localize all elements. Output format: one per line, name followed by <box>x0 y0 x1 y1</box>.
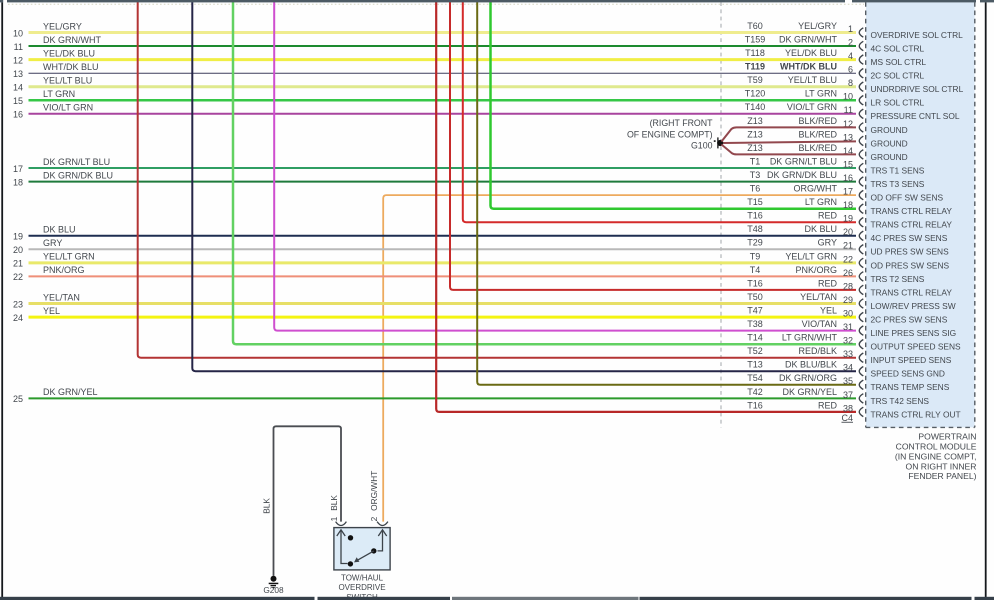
connector pin 19 terminal arc <box>859 218 863 227</box>
svg-text:YEL/LT GRN: YEL/LT GRN <box>43 252 95 262</box>
svg-text:(RIGHT FRONT: (RIGHT FRONT <box>650 118 714 128</box>
svg-text:32: 32 <box>843 336 853 346</box>
wire T120 LT GRN row 15 (pin 10) <box>29 99 857 102</box>
svg-text:22: 22 <box>843 254 853 264</box>
ground G100 tick <box>717 137 719 148</box>
svg-text:T60: T60 <box>747 21 763 31</box>
svg-text:6: 6 <box>848 65 853 75</box>
svg-text:28: 28 <box>843 281 853 291</box>
connector pin 38 terminal arc <box>859 407 863 416</box>
svg-text:17: 17 <box>843 187 853 197</box>
connector pin 13 terminal arc <box>859 136 863 145</box>
svg-text:FENDER PANEL): FENDER PANEL) <box>908 471 976 481</box>
svg-text:TRANS CTRL RELAY: TRANS CTRL RELAY <box>871 220 953 230</box>
svg-text:T4: T4 <box>750 265 761 275</box>
svg-text:LOW/REV PRESS SW: LOW/REV PRESS SW <box>871 301 956 311</box>
connector pin 18 terminal arc <box>859 204 863 213</box>
svg-text:PNK/ORG: PNK/ORG <box>795 265 837 275</box>
connector pin 28 terminal arc <box>859 285 863 294</box>
connector pin 35 terminal arc <box>859 380 863 389</box>
connector pin 30 terminal arc <box>859 312 863 321</box>
svg-text:VIO/LT GRN: VIO/LT GRN <box>787 102 837 112</box>
svg-text:21: 21 <box>13 259 23 269</box>
connector pin 15 terminal arc <box>859 163 863 172</box>
svg-text:OD OFF SW SENS: OD OFF SW SENS <box>871 193 944 203</box>
wire T16 RED vertical from top (pin 28) <box>450 0 856 290</box>
connector pin 14 terminal arc <box>859 150 863 159</box>
svg-text:TRS T42 SENS: TRS T42 SENS <box>871 396 930 406</box>
wire T59 YEL/LT BLU row 14 (pin 8) <box>29 85 857 88</box>
svg-text:T52: T52 <box>747 346 763 356</box>
svg-text:T16: T16 <box>747 211 763 221</box>
svg-text:PNK/ORG: PNK/ORG <box>43 265 85 275</box>
ground G208 symbol <box>271 576 277 582</box>
switch contact dot lower <box>348 561 353 566</box>
svg-text:17: 17 <box>13 164 23 174</box>
svg-text:15: 15 <box>13 96 23 106</box>
svg-text:RED: RED <box>818 211 838 221</box>
svg-text:T59: T59 <box>747 75 763 85</box>
connector pin 12 terminal arc <box>859 123 863 132</box>
svg-text:VIO/LT GRN: VIO/LT GRN <box>43 103 93 113</box>
svg-text:20: 20 <box>13 245 23 255</box>
wire T3 DK GRN/DK BLU row 18 (pin 16) <box>29 181 857 183</box>
connector pin 32 terminal arc <box>859 340 863 349</box>
svg-text:INPUT SPEED SENS: INPUT SPEED SENS <box>871 355 952 365</box>
switch pin 1 internal lead with arrow <box>341 530 348 564</box>
svg-text:YEL/GRY: YEL/GRY <box>43 21 82 31</box>
svg-text:LT GRN: LT GRN <box>805 197 837 207</box>
connector pin 6 terminal arc <box>859 69 863 78</box>
svg-text:ON RIGHT INNER: ON RIGHT INNER <box>906 461 977 471</box>
connector pin 21 terminal arc <box>859 245 863 254</box>
module PCM dashed border bottom <box>866 426 975 428</box>
svg-text:GRY: GRY <box>43 238 62 248</box>
svg-text:12: 12 <box>13 55 23 65</box>
connector pin 26 terminal arc <box>859 272 863 281</box>
svg-text:T1: T1 <box>750 156 761 166</box>
svg-text:TRANS TEMP SENS: TRANS TEMP SENS <box>871 382 950 392</box>
switch pin 2 terminal arc <box>377 522 388 526</box>
svg-text:TRS T2 SENS: TRS T2 SENS <box>871 274 925 284</box>
wire T16 RED vertical from top (pin 19) <box>463 0 856 222</box>
switch contact dot middle <box>371 548 376 553</box>
wire T16 RED vertical from top (pin 38) <box>436 0 856 412</box>
svg-text:YEL/LT BLU: YEL/LT BLU <box>43 76 92 86</box>
svg-text:31: 31 <box>843 322 853 332</box>
connector pin 16 terminal arc <box>859 177 863 186</box>
wire T52 RED/BLK vertical from top (pin 33) <box>138 0 856 358</box>
connector pin 2 terminal arc <box>859 41 863 50</box>
svg-text:34: 34 <box>843 363 853 373</box>
svg-text:BLK/RED: BLK/RED <box>798 129 837 139</box>
svg-text:DK GRN/ORG: DK GRN/ORG <box>779 373 837 383</box>
bottom bar segments <box>0 597 315 600</box>
svg-text:T15: T15 <box>747 197 763 207</box>
svg-text:WHT/DK BLU: WHT/DK BLU <box>43 62 99 72</box>
svg-text:GROUND: GROUND <box>871 152 908 162</box>
svg-text:19: 19 <box>13 232 23 242</box>
svg-text:GROUND: GROUND <box>871 125 908 135</box>
svg-text:OUTPUT SPEED SENS: OUTPUT SPEED SENS <box>871 342 962 352</box>
connector pin 20 terminal arc <box>859 231 863 240</box>
svg-text:YEL/LT GRN: YEL/LT GRN <box>785 251 837 261</box>
connector pin 29 terminal arc <box>859 299 863 308</box>
wire BLK from switch pin 1 to ground G208 <box>274 426 342 576</box>
svg-text:T118: T118 <box>745 48 765 58</box>
module PCM box fill <box>866 2 975 427</box>
svg-text:4C SOL CTRL: 4C SOL CTRL <box>871 43 925 53</box>
connector pin 4 terminal arc <box>859 55 863 64</box>
svg-text:37: 37 <box>843 390 853 400</box>
svg-text:Z13: Z13 <box>747 129 763 139</box>
svg-text:YEL/TAN: YEL/TAN <box>43 292 80 302</box>
svg-text:24: 24 <box>13 313 23 323</box>
svg-text:RED: RED <box>818 278 838 288</box>
svg-text:BLK/RED: BLK/RED <box>798 143 837 153</box>
svg-text:16: 16 <box>843 173 853 183</box>
svg-text:LT GRN: LT GRN <box>43 89 75 99</box>
svg-text:LINE PRES SENS SIG: LINE PRES SENS SIG <box>871 328 957 338</box>
svg-text:UD PRES SW SENS: UD PRES SW SENS <box>871 247 950 257</box>
svg-text:2C SOL CTRL: 2C SOL CTRL <box>871 71 925 81</box>
top bar segments <box>0 0 3 2</box>
switch lever with arrowhead <box>358 551 374 560</box>
svg-text:14: 14 <box>13 83 23 93</box>
svg-text:Z13: Z13 <box>747 116 763 126</box>
svg-text:11: 11 <box>14 42 23 52</box>
svg-text:DK GRN/YEL: DK GRN/YEL <box>782 387 837 397</box>
wire T14 LT GRN/WHT vertical from top (pin 32) <box>233 0 856 344</box>
svg-text:8: 8 <box>848 78 853 88</box>
wire Z13 BLK/RED to pin 14 <box>722 145 857 155</box>
svg-text:T42: T42 <box>747 387 763 397</box>
svg-text:WHT/DK BLU: WHT/DK BLU <box>780 62 837 72</box>
svg-text:21: 21 <box>843 241 853 251</box>
svg-text:T48: T48 <box>747 224 763 234</box>
wire T6 ORG/WHT from tow/haul switch pin 2 (pin 17) <box>383 195 856 521</box>
svg-text:PRESSURE CNTL SOL: PRESSURE CNTL SOL <box>871 111 960 121</box>
svg-text:YEL/TAN: YEL/TAN <box>800 292 837 302</box>
svg-text:LT GRN/WHT: LT GRN/WHT <box>782 333 838 343</box>
connector pin 33 terminal arc <box>859 353 863 362</box>
svg-text:G100: G100 <box>691 141 713 151</box>
wire T29 GRY row 20 (pin 21) <box>29 248 857 250</box>
svg-text:33: 33 <box>843 349 853 359</box>
svg-text:LR SOL CTRL: LR SOL CTRL <box>871 98 925 108</box>
svg-text:TRS T3 SENS: TRS T3 SENS <box>871 179 925 189</box>
svg-text:T29: T29 <box>747 238 763 248</box>
svg-text:TRS T1 SENS: TRS T1 SENS <box>871 165 925 175</box>
wire T118 YEL/DK BLU row 12 (pin 4) <box>29 58 857 61</box>
svg-text:1: 1 <box>848 24 853 34</box>
svg-text:25: 25 <box>13 394 23 404</box>
wire T15 LT GRN vertical from top (pin 18) <box>491 0 857 209</box>
svg-text:BLK: BLK <box>262 498 272 514</box>
svg-text:2: 2 <box>369 516 379 521</box>
svg-text:DK GRN/DK BLU: DK GRN/DK BLU <box>43 170 113 180</box>
svg-text:DK BLU: DK BLU <box>43 225 76 235</box>
switch S1 tow/haul overdrive switch box <box>334 528 390 570</box>
module PCM dashed border right <box>974 2 976 427</box>
wire Z13 BLK/RED to pin 12 <box>722 127 857 141</box>
wire T1 DK GRN/LT BLU row 17 (pin 15) <box>29 167 857 169</box>
svg-text:CONTROL MODULE: CONTROL MODULE <box>896 442 977 452</box>
svg-text:OF ENGINE COMPT): OF ENGINE COMPT) <box>627 129 713 139</box>
svg-text:T6: T6 <box>750 184 761 194</box>
svg-text:T3: T3 <box>750 170 761 180</box>
svg-text:YEL/DK BLU: YEL/DK BLU <box>785 48 837 58</box>
svg-text:YEL/GRY: YEL/GRY <box>798 21 837 31</box>
switch pin 2 internal lead with arrow <box>378 530 383 551</box>
svg-text:OVERDRIVE: OVERDRIVE <box>338 583 385 592</box>
connector pin 1 terminal arc <box>859 28 863 37</box>
svg-text:YEL: YEL <box>820 306 837 316</box>
svg-text:MS SOL CTRL: MS SOL CTRL <box>871 57 927 67</box>
wire T13 DK BLU/BLK vertical from top (pin 34) <box>192 0 856 371</box>
svg-text:29: 29 <box>843 295 853 305</box>
svg-text:38: 38 <box>843 403 853 413</box>
connector pin 11 terminal arc <box>859 109 863 118</box>
svg-text:11: 11 <box>844 105 853 115</box>
svg-text:4: 4 <box>848 51 853 61</box>
wire T9 YEL/LT GRN row 21 (pin 22) <box>29 261 857 264</box>
connector pin 8 terminal arc <box>859 82 863 91</box>
svg-text:RED/BLK: RED/BLK <box>798 346 837 356</box>
svg-text:C4: C4 <box>841 413 853 423</box>
connector pin 31 terminal arc <box>859 326 863 335</box>
svg-text:30: 30 <box>843 309 853 319</box>
svg-text:4C PRES SW SENS: 4C PRES SW SENS <box>871 233 948 243</box>
svg-text:DK GRN/WHT: DK GRN/WHT <box>43 35 101 45</box>
wire T60 YEL/GRY row 10 (pin 1) <box>29 31 857 34</box>
svg-text:T159: T159 <box>745 34 766 44</box>
svg-text:LT GRN: LT GRN <box>805 89 837 99</box>
svg-text:OVERDRIVE SOL CTRL: OVERDRIVE SOL CTRL <box>871 30 964 40</box>
wire T47 YEL row 24 (pin 30) <box>29 316 857 319</box>
wire T119 WHT/DK BLU row 13 (pin 6) <box>29 72 857 74</box>
svg-text:18: 18 <box>843 200 853 210</box>
svg-text:ORG/WHT: ORG/WHT <box>794 184 838 194</box>
svg-text:DK GRN/WHT: DK GRN/WHT <box>779 34 837 44</box>
svg-text:20: 20 <box>843 227 853 237</box>
svg-text:T14: T14 <box>747 333 763 343</box>
wire T54 DK GRN/ORG vertical from top (pin 35) <box>477 0 856 385</box>
svg-text:POWERTRAIN: POWERTRAIN <box>918 432 976 442</box>
svg-text:TRANS CTRL RELAY: TRANS CTRL RELAY <box>871 287 953 297</box>
switch contact dot upper <box>348 535 353 540</box>
svg-text:T140: T140 <box>745 102 766 112</box>
svg-text:DK GRN/DK BLU: DK GRN/DK BLU <box>767 170 837 180</box>
faint dotted separator <box>8 3 864 5</box>
svg-text:15: 15 <box>843 159 853 169</box>
svg-text:T50: T50 <box>747 292 763 302</box>
svg-text:2: 2 <box>848 37 853 47</box>
svg-text:T13: T13 <box>747 360 763 370</box>
svg-text:BLK/RED: BLK/RED <box>798 116 837 126</box>
ground G100 splice dot <box>717 140 723 146</box>
svg-text:GROUND: GROUND <box>871 138 908 148</box>
svg-text:13: 13 <box>13 69 23 79</box>
connector C4 dashed boundary line <box>720 2 722 427</box>
svg-text:22: 22 <box>13 272 23 282</box>
svg-text:UNDRDRIVE SOL CTRL: UNDRDRIVE SOL CTRL <box>871 84 964 94</box>
svg-text:DK GRN/YEL: DK GRN/YEL <box>43 387 98 397</box>
svg-text:GRY: GRY <box>818 238 837 248</box>
svg-text:16: 16 <box>13 110 23 120</box>
svg-text:T119: T119 <box>745 62 765 72</box>
svg-text:YEL: YEL <box>43 306 60 316</box>
svg-text:YEL/LT BLU: YEL/LT BLU <box>788 75 837 85</box>
svg-text:ORG/WHT: ORG/WHT <box>369 471 379 511</box>
svg-text:DK BLU/BLK: DK BLU/BLK <box>785 360 837 370</box>
connector pin 10 terminal arc <box>859 96 863 105</box>
svg-text:YEL/DK BLU: YEL/DK BLU <box>43 48 95 58</box>
wire T159 DK GRN/WHT row 11 (pin 2) <box>29 45 857 47</box>
svg-text:OD PRES SW SENS: OD PRES SW SENS <box>871 260 950 270</box>
svg-text:2C PRES SW SENS: 2C PRES SW SENS <box>871 315 948 325</box>
connector pin 34 terminal arc <box>859 367 863 376</box>
connector pin 37 terminal arc <box>859 394 863 403</box>
svg-text:T16: T16 <box>747 278 763 288</box>
svg-text:DK GRN/LT BLU: DK GRN/LT BLU <box>43 157 110 167</box>
svg-text:23: 23 <box>13 299 23 309</box>
svg-text:26: 26 <box>843 268 853 278</box>
svg-text:10: 10 <box>13 28 23 38</box>
svg-text:RED: RED <box>818 400 838 410</box>
wire T42 DK GRN/YEL row 25 (pin 37) <box>29 397 857 399</box>
svg-text:DK BLU: DK BLU <box>804 224 837 234</box>
page border right <box>985 2 987 597</box>
svg-text:T120: T120 <box>745 89 766 99</box>
svg-text:18: 18 <box>13 177 23 187</box>
wire T4 PNK/ORG row 22 (pin 26) <box>29 275 857 277</box>
svg-text:T16: T16 <box>747 400 763 410</box>
module PCM dashed border left <box>865 2 867 427</box>
svg-text:G208: G208 <box>263 585 284 595</box>
wire Z13 BLK/RED to pin 13 <box>723 141 856 143</box>
svg-text:TOW/HAUL: TOW/HAUL <box>341 573 384 582</box>
svg-text:35: 35 <box>843 376 853 386</box>
svg-text:VIO/TAN: VIO/TAN <box>802 319 837 329</box>
wire T48 DK BLU row 19 (pin 20) <box>29 235 857 237</box>
svg-text:T38: T38 <box>747 319 763 329</box>
svg-text:1: 1 <box>329 516 339 521</box>
wire T50 YEL/TAN row 23 (pin 29) <box>29 302 857 305</box>
connector pin 22 terminal arc <box>859 258 863 267</box>
svg-text:SPEED SENS GND: SPEED SENS GND <box>871 369 945 379</box>
wire T38 VIO/TAN vertical from top (pin 31) <box>274 0 856 331</box>
svg-text:19: 19 <box>843 214 853 224</box>
ground G100 footnote mark <box>714 140 716 142</box>
svg-text:10: 10 <box>843 92 853 102</box>
svg-text:BLK: BLK <box>329 495 339 511</box>
svg-text:(IN ENGINE COMPT,: (IN ENGINE COMPT, <box>895 451 977 461</box>
svg-text:T9: T9 <box>750 251 761 261</box>
svg-text:T47: T47 <box>747 306 763 316</box>
svg-text:T54: T54 <box>747 373 763 383</box>
page border left <box>1 2 3 597</box>
connector pin 17 terminal arc <box>859 190 863 199</box>
switch pin 1 terminal arc <box>336 522 347 526</box>
wire T140 VIO/LT GRN row 16 (pin 11) <box>29 113 857 115</box>
svg-text:DK GRN/LT BLU: DK GRN/LT BLU <box>770 156 837 166</box>
svg-text:TRANS CTRL RELAY: TRANS CTRL RELAY <box>871 206 953 216</box>
svg-text:TRANS CTRL RLY OUT: TRANS CTRL RLY OUT <box>871 409 961 419</box>
svg-text:Z13: Z13 <box>747 143 763 153</box>
